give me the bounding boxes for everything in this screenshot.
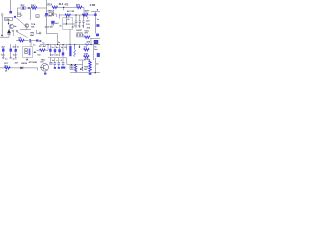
capacitor C29 <box>94 14 96 17</box>
node dot <box>63 7 64 8</box>
svg-text:478: 478 <box>86 41 90 44</box>
wire <box>90 39 92 45</box>
wire rail bottom left <box>0 67 38 69</box>
svg-text:4n7: 4n7 <box>55 22 59 25</box>
wire stub coil box <box>26 58 28 60</box>
svg-text:2x: 2x <box>67 19 70 21</box>
wire <box>16 40 19 42</box>
wire diagonal <box>16 18 26 26</box>
inductor L2 blue <box>85 44 89 46</box>
wire <box>82 60 84 67</box>
capacitor C1 <box>9 11 12 13</box>
wire <box>1 17 3 38</box>
capacitor C15 blue box <box>94 40 98 44</box>
wire rail mid2 <box>48 57 67 59</box>
wire stub <box>87 17 89 20</box>
node dot <box>26 59 27 60</box>
svg-text:RC4: RC4 <box>47 4 52 7</box>
node dot <box>75 64 76 65</box>
wire IF can drop <box>69 30 71 45</box>
resistor R4 <box>65 14 71 16</box>
crystal X1 <box>21 7 26 10</box>
resistor R5 <box>82 14 88 16</box>
node circle 2 <box>39 32 41 34</box>
coil winding blue <box>29 49 31 56</box>
svg-text:4n7: 4n7 <box>1 46 5 49</box>
resistor R9 <box>84 48 90 50</box>
antenna symbol <box>1 14 3 16</box>
node dot <box>75 14 76 15</box>
svg-text:1n: 1n <box>12 31 15 33</box>
ground mark <box>44 14 46 17</box>
svg-text:1n: 1n <box>78 26 81 28</box>
svg-text:1n: 1n <box>97 19 100 21</box>
blue box small <box>14 16 16 18</box>
node dot <box>79 46 80 47</box>
wire <box>26 7 29 9</box>
svg-text:0.5W: 0.5W <box>90 5 96 7</box>
svg-text:bat: bat <box>94 48 97 51</box>
svg-text:(Coil 40t: (Coil 40t <box>45 25 53 28</box>
transistor Q1 <box>9 24 13 28</box>
node dot <box>71 64 72 65</box>
node dot <box>70 44 71 45</box>
node dot <box>74 44 75 45</box>
wire stub <box>63 7 65 10</box>
node circle <box>16 30 18 32</box>
wire <box>76 36 84 38</box>
wire <box>31 40 36 42</box>
node dot <box>95 72 96 73</box>
svg-text:2n2: 2n2 <box>50 55 54 57</box>
capacitor C18 column <box>15 44 17 57</box>
wire <box>13 30 15 37</box>
wire <box>50 58 52 62</box>
node dot <box>48 44 49 45</box>
svg-text:257: 257 <box>15 62 19 64</box>
wire L shape <box>47 34 58 45</box>
wire stub <box>37 68 39 71</box>
svg-text:63v: 63v <box>1 54 5 56</box>
wire <box>67 58 83 65</box>
svg-text:4k7: 4k7 <box>43 45 47 48</box>
svg-text:1N914: 1N914 <box>21 62 28 65</box>
svg-text:4a: 4a <box>14 25 17 28</box>
capacitor C27 column <box>58 58 60 62</box>
svg-text:10u: 10u <box>87 59 91 61</box>
wire <box>90 38 100 40</box>
transformer T1 box <box>63 18 73 30</box>
wire <box>54 14 57 17</box>
node dot blue <box>89 73 92 75</box>
wire <box>30 8 32 20</box>
arrow into box <box>34 51 36 53</box>
wire antenna vertical <box>10 0 12 13</box>
capacitor C17 column <box>10 44 12 56</box>
wire <box>18 8 22 13</box>
wire <box>0 36 9 38</box>
svg-text:n: n <box>56 60 58 62</box>
svg-text:472: 472 <box>64 3 69 6</box>
svg-text:4577: 4577 <box>85 10 91 13</box>
wire <box>75 72 77 73</box>
svg-text:CSA: CSA <box>5 18 10 21</box>
node arrow 2 <box>40 40 42 42</box>
diode D3 <box>20 67 22 70</box>
svg-text:39: 39 <box>5 71 8 73</box>
node dot <box>8 23 9 24</box>
resistor R10 <box>84 55 90 57</box>
resistor R6 <box>19 39 25 41</box>
transistor Q2 <box>25 24 29 28</box>
svg-text:2n: 2n <box>59 26 62 28</box>
capacitor C21 column <box>59 45 61 57</box>
svg-text:1n: 1n <box>51 47 54 49</box>
svg-text:25V: 25V <box>84 33 88 35</box>
svg-text:9v: 9v <box>96 64 99 66</box>
resistor R13 blue vertical tall <box>89 61 91 72</box>
wire <box>8 20 10 24</box>
capacitor C7 <box>96 24 99 27</box>
box stub <box>37 30 41 34</box>
capacitor C23 electrolytic blue <box>69 46 71 56</box>
node arrow <box>28 7 30 9</box>
wire <box>94 58 96 73</box>
transformer T1 primary <box>65 15 67 24</box>
resistor R1 <box>31 7 37 9</box>
capacitor C19 column <box>49 45 51 57</box>
capacitor C16 column <box>2 47 4 56</box>
capacitor C30 blue <box>36 40 39 42</box>
svg-text:RL5: RL5 <box>59 4 64 6</box>
capacitor C8 polarized arrow <box>7 29 11 33</box>
svg-text:1n: 1n <box>33 44 36 46</box>
wire <box>30 41 32 47</box>
capacitor C11 <box>76 34 78 37</box>
wire <box>82 7 84 15</box>
svg-text:4u: 4u <box>56 54 59 57</box>
diode D2 box <box>70 66 73 70</box>
capacitor C17 foot <box>10 56 12 59</box>
svg-text:10n: 10n <box>37 55 41 57</box>
wire <box>26 28 28 30</box>
resistor R11 <box>5 67 11 69</box>
node dot <box>63 44 64 45</box>
wire <box>36 49 39 51</box>
resistor R7 <box>40 49 46 51</box>
wire <box>78 59 86 61</box>
capacitor C5 <box>82 15 84 28</box>
wire <box>37 7 47 9</box>
node box <box>36 15 39 18</box>
capacitor C2 <box>45 13 48 15</box>
box B1 <box>5 17 13 20</box>
capacitor C25 <box>49 62 52 64</box>
capacitor C8 plates <box>7 33 10 34</box>
resistor R2 <box>52 6 58 8</box>
wire <box>66 45 68 51</box>
wire diagonal 2 <box>17 32 28 38</box>
svg-text:472: 472 <box>86 20 90 23</box>
svg-text:4L7 2K: 4L7 2K <box>67 10 75 13</box>
svg-text:4x: 4x <box>1 34 4 37</box>
capacitor C28 column <box>62 58 64 62</box>
capacitor C22 column <box>62 45 64 58</box>
wire <box>58 14 60 19</box>
wire <box>8 35 10 38</box>
capacitor C12 <box>79 34 81 37</box>
svg-text:1n: 1n <box>82 26 85 28</box>
svg-text:1N414: 1N414 <box>47 9 54 12</box>
wire <box>79 45 81 49</box>
coil box L3 <box>22 47 32 58</box>
resistor R12 blue vertical <box>75 65 77 72</box>
svg-text:4n: 4n <box>56 46 59 49</box>
capacitor C3 <box>75 15 77 28</box>
wire rail mid <box>40 44 100 46</box>
svg-text:5z: 5z <box>42 42 44 44</box>
capacitor C20 column <box>54 45 56 57</box>
wire <box>24 40 29 42</box>
svg-text:Cry: Cry <box>21 5 26 7</box>
svg-text:109: 109 <box>40 62 43 64</box>
svg-text:1n: 1n <box>74 26 77 28</box>
svg-text:4R7: 4R7 <box>76 3 81 6</box>
svg-text:5: 5 <box>21 15 22 17</box>
transformer T1 tap wire <box>63 23 75 25</box>
svg-text:479: 479 <box>87 27 91 30</box>
wire <box>47 45 49 51</box>
capacitor C10 blue <box>51 21 54 24</box>
svg-text:1n: 1n <box>58 42 61 44</box>
svg-text:1n: 1n <box>13 58 16 60</box>
node dot blue <box>44 73 46 75</box>
wire rail row B <box>59 14 95 16</box>
capacitor C14 blue <box>96 34 99 37</box>
node dot <box>91 44 92 45</box>
inductor L4 blue coil <box>74 45 76 57</box>
resistor R3 <box>77 6 83 8</box>
svg-text:1n: 1n <box>52 60 55 62</box>
transistor Q3 <box>40 64 49 72</box>
wire <box>20 29 31 31</box>
svg-text:ETCHNG: ETCHNG <box>29 62 38 64</box>
svg-text:1n: 1n <box>17 46 20 48</box>
svg-text:2n2: 2n2 <box>13 55 17 57</box>
wire <box>44 71 46 73</box>
wire <box>94 12 96 34</box>
node A <box>17 13 20 17</box>
wire <box>8 29 10 31</box>
capacitor C4 <box>79 15 81 28</box>
capacitor C13 <box>82 34 84 37</box>
svg-text:103: 103 <box>86 24 90 26</box>
node dot <box>83 14 84 15</box>
wire <box>93 45 95 61</box>
node dot <box>57 44 58 45</box>
wire bus vertical <box>46 0 48 34</box>
capacitor C9 <box>28 39 30 42</box>
capacitor C24 blue <box>97 53 100 57</box>
svg-text:1n: 1n <box>5 58 8 60</box>
resistor R8 <box>84 36 90 38</box>
wire <box>58 6 77 8</box>
capacitor C26 column <box>54 58 56 62</box>
capacitor C16 foot <box>2 56 4 59</box>
wire <box>70 72 100 74</box>
capacitor C18 foot <box>15 57 17 59</box>
svg-text:10k: 10k <box>31 27 35 29</box>
node dot <box>66 23 67 24</box>
transistor Q4 arrow <box>80 67 83 71</box>
wire <box>91 11 100 13</box>
arrow in box <box>52 13 54 15</box>
svg-text:4: 4 <box>61 59 63 62</box>
wire <box>45 49 48 51</box>
coil core <box>25 49 27 51</box>
box small top <box>49 12 54 16</box>
